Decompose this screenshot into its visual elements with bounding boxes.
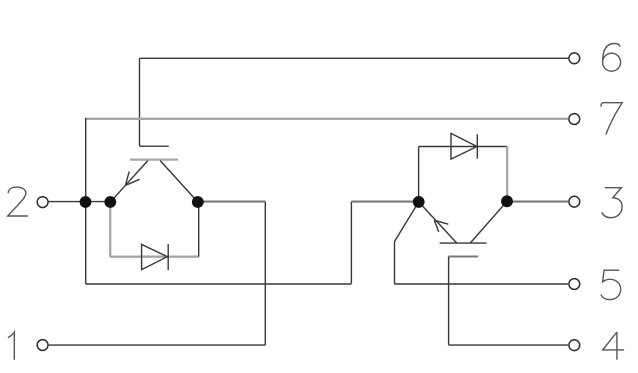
wire terminal 6 top horizontal: [140, 57, 569, 59]
terminal circle 6: [569, 53, 580, 64]
diode D1: [142, 244, 169, 270]
pin number 3: [602, 188, 622, 218]
wire Q1 collector to terminal 1 riser: [198, 201, 265, 203]
transistor Q1 gate lead: [140, 145, 169, 147]
diode D2: [451, 133, 477, 159]
transistor Q1 gate bar: [130, 158, 178, 160]
wire diode D1 loop bottom: [110, 256, 199, 258]
wire vertical from terminal 7 line down to bottom bus: [85, 118, 87, 284]
wire terminal 1 riser vertical: [264, 202, 266, 346]
pin number 2: [8, 187, 28, 216]
node junction dot Q1 emitter: [104, 196, 116, 208]
wire Q2 gate riser to terminal 4: [448, 257, 450, 346]
transistor Q1 emitter lead with arrow: [110, 161, 147, 202]
terminal circle 7: [569, 114, 580, 125]
pin number 6: [603, 44, 621, 72]
wire terminal 7 horizontal: [86, 118, 568, 120]
transistor Q2 collector lead: [470, 201, 507, 243]
wire emitter bus to node B1: [351, 201, 418, 203]
wire terminal 4 horizontal: [449, 344, 568, 346]
wire emitter bus bottom horizontal: [86, 283, 352, 285]
transistor Q2 bar: [440, 242, 487, 244]
pin number 4: [603, 332, 624, 360]
transistor Q2 gate lead: [449, 255, 478, 257]
transistor Q1 collector lead: [160, 161, 198, 202]
node junction dot Q2 upper-right: [501, 195, 513, 207]
wire emitter bus riser: [350, 202, 352, 284]
node junction dot Q2 upper-left: [413, 196, 425, 208]
node junction dot Q1 collector: [192, 196, 204, 208]
terminal circle 2: [37, 197, 48, 208]
wire gate riser of Q1: [139, 58, 141, 146]
pin number 7: [601, 103, 622, 135]
terminal circle 4: [569, 340, 580, 351]
pin number 5: [601, 270, 621, 299]
wire terminal 5 riser: [394, 242, 396, 285]
node junction dot terminal2/7 tie: [80, 196, 92, 208]
wire terminal 5 horizontal: [395, 283, 569, 285]
wire node B1 to terminal 5 diagonal: [395, 202, 419, 242]
terminal circle 5: [569, 279, 580, 290]
wire terminal 2 to emitter node: [49, 201, 111, 203]
wire diode D1 loop right leg: [198, 202, 200, 257]
wire node B2 to terminal 3: [507, 201, 568, 203]
wire diode D2 loop top: [419, 146, 508, 148]
pin number 1: [8, 332, 14, 360]
wire diode D2 loop right leg: [506, 147, 508, 202]
transistor Q2 emitter lead with arrow: [419, 202, 457, 243]
wire diode D1 loop left leg: [109, 202, 111, 257]
wire diode D2 loop left leg: [418, 147, 420, 202]
terminal circle 3: [569, 196, 580, 207]
wire terminal 1 horizontal: [49, 344, 265, 346]
terminal circle 1: [37, 340, 48, 351]
